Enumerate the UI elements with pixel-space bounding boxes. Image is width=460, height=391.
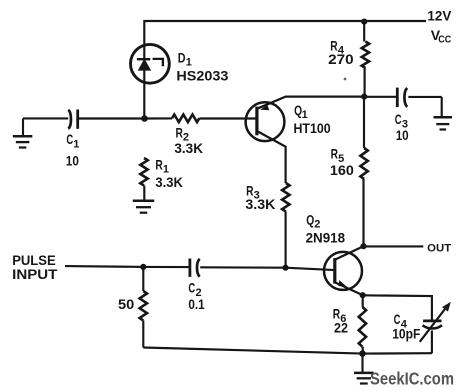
svg-text:INPUT: INPUT	[12, 267, 58, 283]
svg-text:12V: 12V	[427, 8, 452, 24]
svg-text:Q: Q	[306, 211, 314, 227]
svg-text:HT100: HT100	[294, 120, 331, 136]
svg-text:SeekIC.com: SeekIC.com	[370, 368, 454, 388]
svg-text:22: 22	[334, 320, 348, 336]
svg-text:50: 50	[118, 296, 135, 312]
svg-text:C: C	[395, 111, 402, 127]
svg-text:160: 160	[330, 162, 354, 178]
svg-text:HS2033: HS2033	[176, 68, 228, 84]
svg-text:270: 270	[328, 51, 354, 67]
svg-text:C: C	[188, 280, 195, 296]
svg-text:10pF: 10pF	[392, 325, 421, 341]
svg-text:3.3K: 3.3K	[155, 174, 183, 190]
svg-text:10: 10	[66, 153, 79, 169]
svg-text:2N918: 2N918	[306, 230, 346, 246]
svg-text:10: 10	[396, 127, 409, 143]
svg-text:R: R	[155, 157, 162, 173]
svg-text:C: C	[66, 131, 73, 147]
svg-text:3.3K: 3.3K	[174, 140, 203, 156]
svg-text:D: D	[178, 49, 186, 65]
svg-text:CC: CC	[438, 35, 451, 46]
svg-text:R: R	[176, 124, 183, 140]
svg-text:OUT: OUT	[427, 243, 451, 255]
svg-text:0.1: 0.1	[188, 296, 204, 312]
svg-text:3.3K: 3.3K	[245, 196, 275, 212]
svg-text:R: R	[331, 146, 338, 162]
svg-text:1: 1	[73, 138, 79, 150]
